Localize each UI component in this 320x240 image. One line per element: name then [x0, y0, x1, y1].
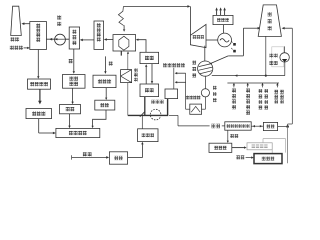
- wire: coal yard bold line down: [144, 97, 146, 116]
- label: condenser: [192, 61, 196, 65]
- box: step-up substation: [213, 15, 233, 24]
- label: demin water: [211, 124, 215, 128]
- wire: branch to service building w/ diagonal jog: [140, 112, 145, 117]
- box: wet slag remover: [93, 75, 116, 87]
- box: gypsum silo: [26, 109, 52, 119]
- wire: gypsum silo to utilization: [38, 119, 40, 133]
- circulating pump label box: [272, 47, 284, 67]
- box: FGD desulfurization unit: [30, 22, 47, 50]
- wire: right riser into tower: [291, 28, 293, 124]
- gray connector wires: [263, 138, 286, 140]
- box: ESP dust collector: [69, 27, 79, 49]
- box: ash silo: [60, 105, 81, 114]
- wire: ESP to fan to FGD duct: [46, 38, 69, 40]
- cooling tower: [258, 5, 281, 37]
- box: coal pulverizer: [140, 52, 159, 63]
- wire: ash silo to utilization: [69, 114, 71, 127]
- wire: FGD outlet to chimney: [23, 23, 30, 25]
- wire+label: slag line to slag remover: [104, 56, 106, 72]
- label: boiler make-up treatment user: [259, 89, 263, 93]
- box: air preheater / economizer: [94, 21, 104, 49]
- wire+label: ash from ESP to pneumatic ash handling: [73, 49, 75, 72]
- box: raw water pretreatment: [209, 143, 232, 152]
- feedwater bold line to boiler house: [167, 99, 169, 116]
- label: turbine: [193, 35, 196, 39]
- wire: turbine exhaust to condenser: [204, 46, 206, 62]
- condenser (hatched circle): [198, 61, 213, 76]
- label: auxiliary cooling water user: [274, 90, 278, 94]
- box: gypsum dewatering: [28, 79, 51, 89]
- wire: pulverizer return: [151, 64, 153, 82]
- wire: into reuse basin: [246, 157, 252, 159]
- box: reuse water basin (bold): [254, 154, 282, 164]
- wire: boiler flue out: [106, 39, 113, 41]
- box: reclaimed water treatment: [247, 143, 272, 150]
- wire: steam line boiler drum to turbine (zigzag riser + top run): [118, 7, 123, 26]
- wire: waste water collection riser: [278, 126, 288, 128]
- label: coal make-up: [163, 63, 167, 67]
- wire: to gypsum silo: [39, 89, 41, 101]
- LP heater (box with chevron): [190, 104, 202, 114]
- box: chemical water treatment station: [225, 122, 251, 130]
- wire: pump to heater: [204, 97, 206, 109]
- label: condensate pump: [213, 86, 217, 90]
- wire: duct to ESP: [82, 39, 94, 41]
- wire: boiler bottom stub: [120, 51, 122, 56]
- wire: air duct through FD fan: [127, 54, 129, 70]
- chimney: [11, 6, 22, 35]
- wire: conveyor to pulverizer: [145, 66, 147, 84]
- wire: spray water arrows: [176, 72, 185, 74]
- induced draft fan (circle): [55, 34, 66, 45]
- forced draft fan (box with triangle): [121, 70, 132, 83]
- wire: to reuse water treatment: [232, 147, 245, 149]
- box: water intake pump house: [109, 152, 127, 164]
- wire: makeup line to chemical treatment: [169, 114, 178, 116]
- label: FD fan: [134, 68, 138, 72]
- circulating water pump: [280, 53, 289, 62]
- wire: to ash silo: [72, 88, 74, 102]
- label + wire: demin water into FGD: [10, 46, 14, 50]
- wire+label: raw water down: [227, 130, 229, 141]
- generator: [218, 33, 232, 47]
- wire: cold circ water main to condenser: [212, 75, 285, 77]
- label: FGD process water user: [232, 89, 236, 93]
- label: LP heater: [186, 96, 189, 100]
- wire: two-way link: [251, 125, 263, 127]
- wire: slag bin to utilization: [93, 110, 106, 126]
- box: coal conveying: [140, 84, 159, 97]
- auxiliary power taps: [233, 43, 236, 46]
- label: chimney: [11, 37, 15, 41]
- wire: shaft: [206, 39, 218, 41]
- box: slag bin: [95, 100, 115, 110]
- box: pneumatic ash conveying: [63, 75, 86, 89]
- label: feed pump: [151, 100, 155, 104]
- wire: tower cold water down: [265, 36, 267, 75]
- power output arrows: [216, 10, 218, 15]
- wire: generator to substation: [223, 25, 225, 33]
- wire+label: cooling make-up water line: [71, 155, 73, 159]
- wire: condenser hotwell down: [204, 76, 206, 89]
- wire: arrow into boiler top: [123, 25, 125, 29]
- boiler feed pump (dashed circle): [150, 109, 161, 120]
- boiler (vessel with furnace hexagon): [113, 35, 136, 51]
- wire: slag remover to slag bin: [105, 88, 107, 99]
- wire: pump house up to service building: [128, 157, 143, 159]
- label: coal yard spray water user: [246, 89, 250, 93]
- box: service/living area building: [138, 129, 158, 142]
- wire: warm circulating water riser to tower: [209, 56, 228, 64]
- label: reclaimed water: [236, 155, 240, 159]
- wire: make-up into coal yard box: [173, 68, 175, 89]
- box: comprehensive utilization: [56, 128, 100, 137]
- condensate pump: [201, 89, 209, 97]
- steam turbine: [190, 24, 206, 47]
- branch arrows to users: [233, 83, 235, 87]
- wire: coal feed into boiler: [138, 40, 146, 53]
- wire: service water header: [227, 82, 279, 84]
- wire: FGD to gypsum dewatering: [37, 50, 39, 77]
- label: cooling tower: [268, 12, 272, 16]
- label: fan: [57, 15, 61, 19]
- box: waste water: [263, 122, 277, 130]
- box: coal yard: [165, 89, 178, 99]
